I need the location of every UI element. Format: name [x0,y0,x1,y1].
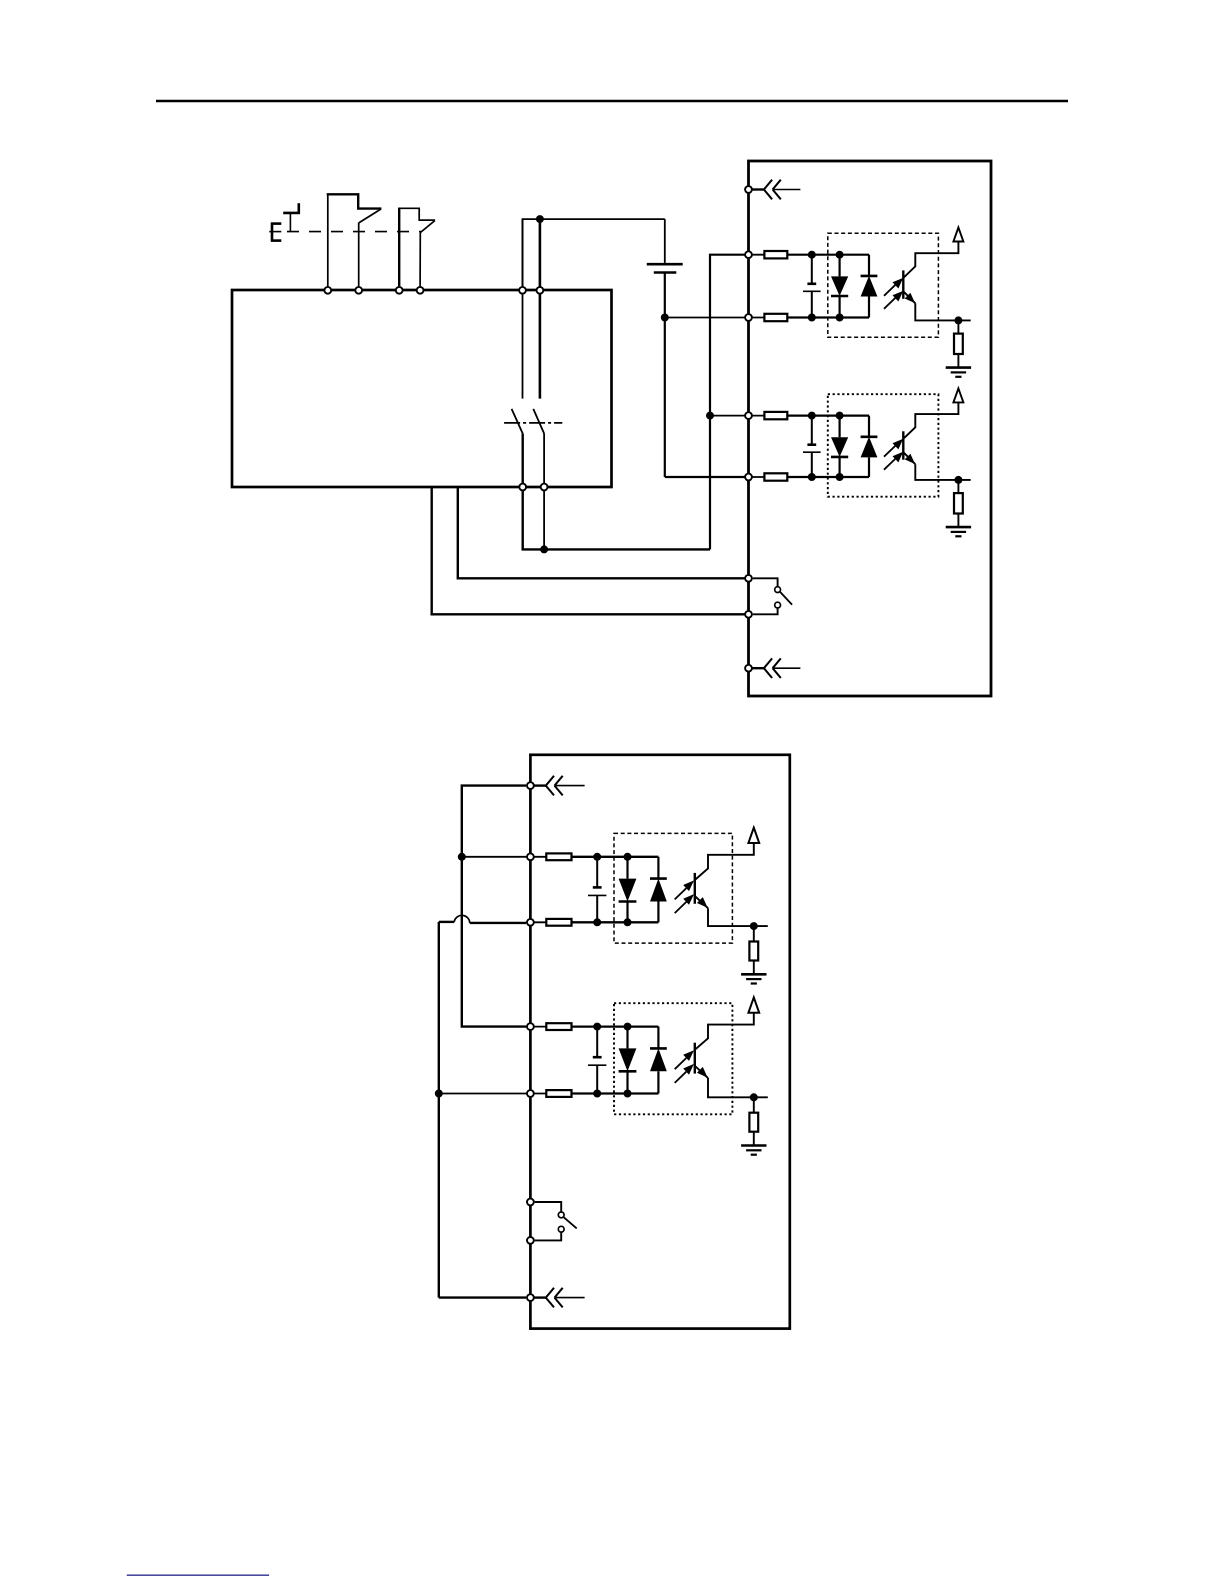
light arrow PC1 upper [884,278,903,296]
LED D1b (up) [861,255,878,318]
terminal A2 shield top [527,782,534,789]
junction top feed [536,215,544,223]
junction D2a bottom [836,473,844,481]
resistor R1b [764,314,787,321]
wire rail 2 bottom [787,476,869,478]
resistor R2b [764,473,787,480]
shield arrow top (circuit 2) [534,776,585,796]
wire 24V left vertical [522,219,524,290]
junction C3 top [593,853,601,861]
wire OUT1 to R load [957,320,959,333]
status contact K3 (circuit 2) [535,1202,577,1240]
shield arrow bottom (circuit 1) [752,658,801,678]
wire RL1 to ground [957,354,959,368]
ground GND3 [741,974,766,983]
wire IN1+ lead [745,254,764,256]
opto-coupler PC2 package (dashed box) [828,394,939,497]
wire IN1- lead [745,317,764,319]
phototransistor Q3 [695,843,768,926]
junction D1a bottom [836,314,844,322]
limit switch S1 (NC contact) [327,194,382,286]
wire U1 aux outer [432,487,745,614]
terminal IN2- [745,474,752,481]
contact K1b lever [533,409,544,434]
ground GND2 [946,527,971,536]
wire plus to IN1+ [710,255,745,550]
wire IN3- lead [526,921,546,923]
resistor RL1 [954,334,963,354]
interface box A1 [749,161,992,696]
wire minus to IN2- [665,476,745,478]
wire IN2- lead [745,476,764,478]
LED D4a (down) [619,1027,637,1094]
junction C4 bottom [593,1090,601,1098]
LED D4b (up) [650,1027,667,1094]
light arrow PC3 lower [675,894,694,913]
phototransistor Q2 [903,402,970,480]
terminal IN4- [527,1090,534,1097]
wire RL3 to ground [753,961,755,975]
terminal IN3+ [527,853,534,860]
terminal U1 power R [537,287,544,294]
opto-coupler PC1 package (dashed box) [828,233,939,337]
terminal U1 out L [519,484,526,491]
wire rail 3 bottom [572,921,659,923]
wire OUT2 to R load [957,480,959,493]
capacitor C2 [803,416,821,477]
junction C1 top [808,251,816,259]
resistor R3b [546,919,571,926]
wire rail outer bottom [439,1296,526,1298]
wire rail 3 top [572,856,659,858]
junction C1 bottom [808,314,816,322]
shield arrow top (circuit 1) [752,180,801,200]
wire IN3+ lead [526,856,546,858]
wire battery to IN1- [665,317,745,319]
wire rail 4 top [572,1025,659,1027]
contact K1a lever [512,409,523,434]
wire plus to IN2+ [710,415,745,417]
ground GND1 [946,368,971,377]
junction battery minus [661,314,669,322]
light arrow PC3 upper [675,880,694,899]
junction OUT4 [750,1093,758,1101]
resistor RL2 [954,493,963,513]
resistor R1a [764,251,787,258]
wire IN2+ lead [745,415,764,417]
junction plus node [706,412,714,420]
capacitor C1 [803,255,821,318]
terminal U1 out R [541,484,548,491]
wire battery minus down [664,318,666,478]
terminal IN1- [745,314,752,321]
terminal S2-b [417,287,424,294]
wire contact K1b upper [539,290,542,399]
wire IN4+ lead [526,1026,546,1028]
junction C3 bottom [593,918,601,926]
wire rail inner (plus) [462,786,526,1027]
manual actuator T [283,203,300,231]
phototransistor Q1 [903,242,970,321]
wire rail 1 top [787,254,869,256]
terminal K2-b [745,611,752,618]
controller box U1 [232,290,612,487]
capacitor C4 [588,1027,606,1094]
wire contact K1a upper [522,290,524,399]
emergency-stop operator E [269,223,281,242]
battery GB1 [647,219,683,317]
resistor R2a [764,412,787,419]
junction D2a top [836,412,844,420]
wire rail 2 top [787,415,869,417]
opto-coupler PC4 package (dashed box) [614,1003,732,1114]
status contact K2 (circuit 1) [753,578,792,614]
wire contact K1a lower [522,434,524,488]
wire out L down [523,487,710,549]
wire RL4 to ground [753,1132,755,1146]
wire rail 4 bottom [572,1092,659,1094]
light arrow PC2 lower [884,452,903,470]
supply arrow V4 [748,997,759,1012]
junction D1a top [836,251,844,259]
terminal A1 shield top [745,186,752,193]
wire rail 1 bottom [787,316,869,318]
terminal A2 shield bottom [527,1294,534,1301]
capacitor C3 [588,857,606,923]
supply arrow V3 [748,828,759,843]
LED D1a (down) [831,255,848,318]
terminal IN1+ [745,251,752,258]
resistor R3a [546,853,571,860]
wire IN3- with hop [439,915,526,923]
wire top feed horizontal [523,219,665,220]
junction OUT1 [954,316,962,324]
light arrow PC4 lower [675,1064,694,1083]
terminal K3-a [527,1199,534,1206]
junction rail outer [435,1090,443,1098]
junction OUT2 [954,476,962,484]
resistor R4b [546,1090,571,1097]
mechanical link K1 (dashed) [504,422,562,424]
LED D2a (down) [831,416,848,477]
terminal K2-a [745,575,752,582]
wire tap IN3+ [462,856,526,858]
terminal S1-b [355,287,362,294]
junction D4a top [624,1023,632,1031]
LED D3a (down) [619,857,637,923]
junction out join [540,545,548,553]
junction D3a bottom [624,918,632,926]
wire tap IN4- [439,1093,526,1095]
resistor RL4 [749,1113,758,1132]
junction C2 bottom [808,473,816,481]
light arrow PC4 upper [675,1050,694,1069]
resistor RL3 [749,942,758,961]
terminal IN4+ [527,1023,534,1030]
light arrow PC1 lower [884,291,903,309]
wire OUT4 to R load [753,1097,755,1112]
mechanical link (dashed) [287,231,421,233]
LED D3b (up) [650,857,667,923]
interface box A2 [530,755,789,1329]
terminal IN2+ [745,412,752,419]
shield arrow bottom (circuit 2) [534,1288,585,1308]
terminal K3-b [527,1237,534,1244]
opto-coupler PC3 package (dashed box) [614,833,732,943]
junction D3a top [624,853,632,861]
resistor R4a [546,1023,571,1030]
wire U1 aux inner [458,487,745,578]
wire OUT3 to R load [753,926,755,941]
wire out R down [543,487,545,549]
wire IN4- lead [526,1093,546,1095]
ground GND4 [741,1146,766,1155]
light arrow PC2 upper [884,439,903,457]
supply arrow V2 [953,388,963,402]
supply arrow V1 [953,228,963,242]
phototransistor Q4 [695,1013,768,1098]
terminal U1 power L [519,287,526,294]
top rule [156,100,1068,103]
terminal S1-a [324,287,331,294]
wire 24V right vertical [539,219,542,290]
wire contact K1b lower [543,434,545,488]
footer link underline [127,1574,269,1576]
junction rail inner [458,853,466,861]
terminal A1 shield bottom [745,665,752,672]
wire RL2 to ground [957,514,959,528]
junction C4 top [593,1023,601,1031]
terminal IN3- [527,919,534,926]
junction OUT3 [750,922,758,930]
limit switch S2 (NC contact) [398,208,435,286]
junction D4a bottom [624,1090,632,1098]
LED D2b (up) [861,416,878,477]
terminal S2-a [396,287,403,294]
wire rail outer (minus) [438,922,440,1298]
junction C2 top [808,412,816,420]
